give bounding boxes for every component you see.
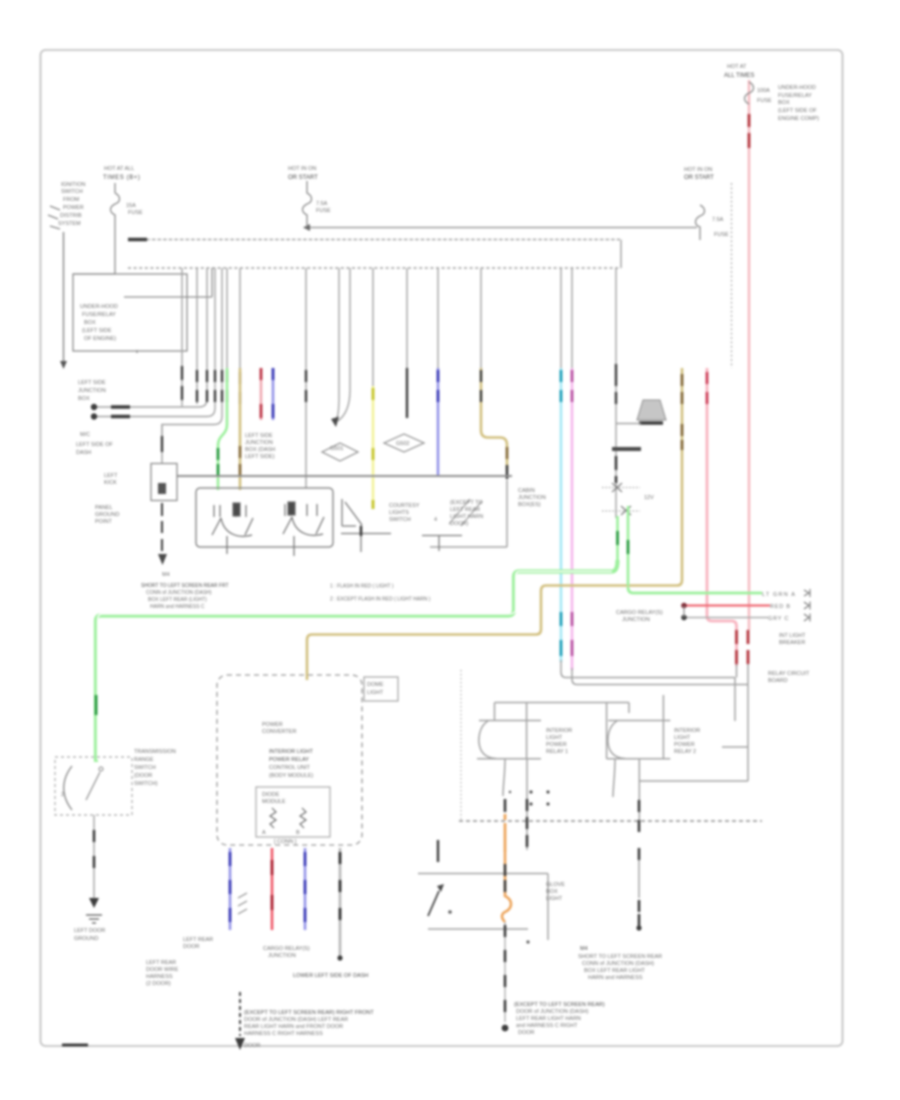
svg-text:BOX: BOX: [778, 100, 790, 106]
svg-text:INTERIOR LIGHT: INTERIOR LIGHT: [269, 749, 314, 755]
svg-text:BOX LEFT REAR LIGHT: BOX LEFT REAR LIGHT: [584, 968, 646, 974]
svg-text:DOOR: DOOR: [244, 1043, 261, 1049]
svg-text:CONN of JUNCTION (DASH): CONN of JUNCTION (DASH): [146, 590, 212, 596]
svg-text:(LEFT SIDE: (LEFT SIDE: [82, 328, 112, 334]
svg-text:SHORT TO LEFT SCREEN REAR: SHORT TO LEFT SCREEN REAR: [578, 954, 662, 960]
svg-text:HOT IN ON: HOT IN ON: [684, 167, 712, 173]
svg-text:POWER: POWER: [63, 205, 84, 211]
svg-text:15A: 15A: [126, 203, 136, 209]
svg-text:(BODY MODULE): (BODY MODULE): [269, 773, 313, 779]
svg-text:GROUND: GROUND: [95, 512, 119, 518]
svg-text:LIGHT HARN: LIGHT HARN: [450, 514, 483, 520]
svg-text:RANGE: RANGE: [134, 757, 154, 763]
svg-text:LIGHT: LIGHT: [674, 735, 691, 741]
svg-text:GRY C: GRY C: [768, 616, 789, 622]
svg-text:CONTROL UNIT: CONTROL UNIT: [269, 765, 311, 771]
svg-text:INTERIOR: INTERIOR: [546, 728, 572, 734]
svg-text:POWER: POWER: [262, 722, 283, 728]
svg-text:HARNESS: HARNESS: [146, 974, 173, 980]
svg-text:1 : FLASH IN RED ( LIGHT ): 1 : FLASH IN RED ( LIGHT ): [330, 584, 394, 590]
svg-text:BOX (DASH: BOX (DASH: [245, 447, 275, 453]
svg-text:SHORT TO LEFT SCREEN REAR FRT: SHORT TO LEFT SCREEN REAR FRT: [141, 583, 229, 589]
svg-text:G502: G502: [396, 441, 409, 447]
svg-text:4: 4: [434, 517, 437, 523]
svg-text:7.5A: 7.5A: [712, 217, 724, 223]
svg-text:RELAY CIRCUIT: RELAY CIRCUIT: [768, 671, 810, 677]
svg-text:HOT IN ON: HOT IN ON: [288, 166, 316, 172]
svg-text:BOX: BOX: [84, 320, 96, 326]
svg-text:FUSE/RELAY: FUSE/RELAY: [778, 93, 812, 99]
svg-text:M4: M4: [580, 946, 588, 952]
svg-text:OF ENGINE): OF ENGINE): [84, 336, 116, 342]
svg-text:LOWER LEFT SIDE OF DASH: LOWER LEFT SIDE OF DASH: [293, 973, 368, 979]
svg-text:HARN and HARNESS: HARN and HARNESS: [588, 975, 643, 981]
svg-text:JUNCTION: JUNCTION: [78, 388, 106, 394]
svg-text:DOME: DOME: [367, 682, 384, 688]
svg-text:BOX: BOX: [546, 889, 558, 895]
svg-text:TRANSMISSION: TRANSMISSION: [134, 749, 176, 755]
svg-text:DOOR: DOOR: [518, 1030, 535, 1036]
svg-text:POWER RELAY: POWER RELAY: [269, 757, 309, 763]
svg-text:100A: 100A: [757, 88, 770, 94]
svg-text:FUSE/RELAY: FUSE/RELAY: [82, 312, 116, 318]
svg-text:2: 2: [61, 792, 64, 798]
svg-text:FUSE: FUSE: [128, 210, 143, 216]
svg-text:LIGHT: LIGHT: [367, 690, 384, 696]
svg-text:LEFT: LEFT: [104, 473, 118, 479]
svg-text:and HARNESS C RIGHT: and HARNESS C RIGHT: [516, 1023, 578, 1029]
svg-text:(DOOR: (DOOR: [134, 773, 152, 779]
svg-text:FUSE: FUSE: [757, 98, 772, 104]
svg-text:LEFT SIDE: LEFT SIDE: [245, 433, 273, 439]
svg-text:DOOR of JUNCTION (DASH): DOOR of JUNCTION (DASH): [516, 1009, 589, 1015]
svg-text:LEFT REAR: LEFT REAR: [183, 937, 213, 943]
svg-text:UNDER-HOOD: UNDER-HOOD: [778, 85, 816, 91]
svg-text:GLOVE: GLOVE: [546, 882, 565, 888]
svg-text:(2 DOOR): (2 DOOR): [146, 981, 171, 987]
svg-text:(EXCEPT TO: (EXCEPT TO: [450, 500, 483, 506]
svg-text:SWITCH: SWITCH: [134, 765, 156, 771]
svg-text:FUSE: FUSE: [714, 232, 729, 238]
svg-text:JUNCTION: JUNCTION: [268, 953, 296, 959]
svg-text:JUNCTION: JUNCTION: [622, 617, 650, 623]
svg-text:IGNITION: IGNITION: [61, 182, 85, 188]
svg-text:A: A: [262, 830, 266, 836]
svg-text:DOOR): DOOR): [450, 521, 469, 527]
svg-text:BOX: BOX: [78, 396, 90, 402]
svg-text:DOOR of JUNCTION (DASH) LEFT R: DOOR of JUNCTION (DASH) LEFT REAR: [244, 1017, 348, 1023]
svg-text:12V: 12V: [644, 495, 654, 501]
svg-text:SYSTEM: SYSTEM: [58, 221, 81, 227]
svg-text:HOT AT ALL: HOT AT ALL: [104, 166, 134, 172]
svg-text:COURTESY: COURTESY: [389, 503, 420, 509]
svg-text:LIGHTS: LIGHTS: [389, 510, 409, 516]
svg-text:ALL TIMES: ALL TIMES: [724, 73, 754, 79]
svg-text:PANEL: PANEL: [95, 505, 113, 511]
svg-text:HOT AT: HOT AT: [727, 64, 747, 70]
svg-text:LIGHT: LIGHT: [546, 735, 563, 741]
svg-text:MODULE: MODULE: [262, 799, 286, 805]
svg-text:LEFT REAR: LEFT REAR: [146, 960, 176, 966]
svg-text:BOX LEFT REAR (LIGHT): BOX LEFT REAR (LIGHT): [148, 597, 207, 603]
svg-text:TIMES (B+): TIMES (B+): [103, 175, 141, 181]
svg-text:DASH: DASH: [76, 450, 91, 456]
svg-text:DOOR WIRE: DOOR WIRE: [146, 967, 179, 973]
svg-text:DOOR: DOOR: [183, 944, 200, 950]
svg-text:OR START: OR START: [288, 175, 318, 181]
svg-text:CARGO RELAY(S): CARGO RELAY(S): [616, 610, 663, 616]
svg-text:KICK: KICK: [104, 480, 117, 486]
svg-text:(LEFT SIDE OF: (LEFT SIDE OF: [778, 108, 817, 114]
svg-text:UNDER-HOOD: UNDER-HOOD: [80, 304, 118, 310]
svg-text:CABIN: CABIN: [518, 488, 535, 494]
svg-text:2 : EXCEPT FLASH IN RED ( LIGH: 2 : EXCEPT FLASH IN RED ( LIGHT HARN ): [330, 597, 431, 603]
svg-text:LEFT REAR LIGHT HARN: LEFT REAR LIGHT HARN: [516, 1016, 581, 1022]
svg-text:LEFT REAR: LEFT REAR: [450, 507, 480, 513]
svg-text:FROM: FROM: [63, 197, 80, 203]
svg-text:LEFT SIDE): LEFT SIDE): [245, 454, 275, 460]
svg-text:SWITCH): SWITCH): [134, 781, 158, 787]
svg-text:POWER: POWER: [674, 742, 695, 748]
svg-text:(EXCEPT TO LEFT SCREEN REAR) R: (EXCEPT TO LEFT SCREEN REAR) RIGHT FRONT: [244, 1010, 374, 1016]
svg-text:INT LIGHT: INT LIGHT: [779, 633, 806, 639]
svg-text:(EXCEPT TO LEFT SCREEN REAR): (EXCEPT TO LEFT SCREEN REAR): [514, 1002, 605, 1008]
svg-text:HARNESS C RIGHT HARNESS: HARNESS C RIGHT HARNESS: [244, 1031, 323, 1037]
svg-text:LT GRN A: LT GRN A: [762, 592, 796, 598]
svg-text:LEFT SIDE OF: LEFT SIDE OF: [76, 442, 114, 448]
svg-text:CONVERTER: CONVERTER: [262, 729, 296, 735]
svg-text:7.5A: 7.5A: [316, 201, 328, 207]
svg-text:RELAY 2: RELAY 2: [674, 749, 696, 755]
svg-text:OR START: OR START: [684, 175, 714, 181]
svg-text:CARGO RELAY(S): CARGO RELAY(S): [263, 946, 310, 952]
svg-text:LEFT DOOR: LEFT DOOR: [74, 928, 105, 934]
svg-text:JUNCTION: JUNCTION: [245, 440, 273, 446]
svg-text:BOARD: BOARD: [768, 678, 788, 684]
svg-text:GROUND: GROUND: [74, 936, 98, 942]
svg-text:DIODE: DIODE: [262, 792, 280, 798]
svg-text:FUSE: FUSE: [316, 208, 331, 214]
svg-text:BOX(ES): BOX(ES): [518, 502, 541, 508]
svg-text:RED B: RED B: [770, 604, 791, 610]
svg-text:SWITCH: SWITCH: [61, 189, 83, 195]
svg-text:RELAY 1: RELAY 1: [546, 749, 568, 755]
svg-text:[ CONN ]: [ CONN ]: [274, 839, 297, 845]
svg-text:LIGHT: LIGHT: [546, 896, 563, 902]
svg-text:CONN of JUNCTION (DASH): CONN of JUNCTION (DASH): [582, 961, 654, 967]
svg-text:BREAKER: BREAKER: [779, 640, 805, 646]
svg-text:M4: M4: [162, 572, 170, 578]
svg-text:LEFT SIDE: LEFT SIDE: [78, 380, 106, 386]
svg-text:POWER: POWER: [546, 742, 567, 748]
svg-text:G501: G501: [330, 446, 343, 452]
svg-text:INTERIOR: INTERIOR: [674, 728, 700, 734]
svg-text:HARN and HARNESS C: HARN and HARNESS C: [150, 604, 205, 610]
svg-text:POINT: POINT: [95, 519, 112, 525]
svg-text:DISTRIB: DISTRIB: [60, 213, 82, 219]
svg-text:SWITCH: SWITCH: [389, 517, 411, 523]
svg-text:ENGINE COMP): ENGINE COMP): [778, 116, 819, 122]
svg-text:REAR LIGHT HARN and FRONT DOOR: REAR LIGHT HARN and FRONT DOOR: [244, 1024, 343, 1030]
svg-text:B: B: [296, 830, 300, 836]
svg-text:M/C: M/C: [80, 432, 90, 438]
svg-text:JUNCTION: JUNCTION: [518, 495, 546, 501]
